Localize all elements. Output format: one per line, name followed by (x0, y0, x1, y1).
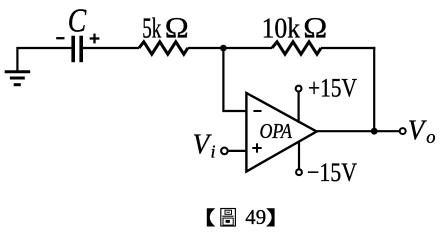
caption character tu (figure) (221, 209, 236, 227)
svg-text:Ω: Ω (303, 12, 327, 44)
svg-text:Ω: Ω (165, 12, 189, 44)
wire: resistor R2 to feedback corner (321, 47, 375, 49)
wire: feedback vertical (373, 47, 375, 131)
svg-text:C: C (68, 3, 87, 40)
svg-text:o: o (426, 128, 435, 148)
svg-text:5k: 5k (142, 12, 161, 44)
junction dot output node (371, 128, 378, 135)
op-amp U1 triangle (246, 93, 316, 172)
capacitor plus sign (90, 34, 100, 44)
capacitor minus sign (56, 37, 64, 39)
wire: capacitor to resistor R1 (83, 47, 139, 49)
svg-text:V: V (408, 116, 427, 147)
terminal +15V circle (296, 86, 302, 92)
svg-text:49: 49 (245, 205, 266, 229)
caption right bracket (266, 208, 275, 226)
wire: junction down to inverting input (223, 48, 246, 111)
ground (5, 72, 31, 85)
resistor 10k zigzag (272, 42, 321, 54)
junction dot node A (220, 45, 227, 52)
svg-text:OPA: OPA (260, 119, 293, 143)
wire: -15V supply to op-amp bottom (298, 141, 300, 169)
terminal Vi circle (221, 148, 228, 155)
resistor 5k zigzag (139, 42, 188, 54)
capacitor C (73, 36, 81, 63)
wire: ground riser to capacitor left plate (17, 48, 71, 71)
wire: resistor R1 to junction (188, 47, 272, 49)
wire: Vi to non-inverting input (229, 150, 247, 152)
terminal Vo circle (400, 128, 406, 134)
terminal -15V circle (296, 169, 302, 175)
wire: op-amp output to Vo (317, 130, 400, 132)
op-amp minus input sign (253, 110, 261, 112)
svg-text:10k: 10k (262, 12, 301, 44)
svg-text:−15V: −15V (307, 157, 357, 187)
wire: +15V supply to op-amp top (298, 92, 300, 123)
caption left bracket (207, 208, 216, 226)
svg-text:V: V (193, 130, 212, 161)
op-amp plus input sign (252, 143, 261, 152)
svg-text:+15V: +15V (308, 72, 357, 102)
svg-text:i: i (211, 142, 216, 162)
